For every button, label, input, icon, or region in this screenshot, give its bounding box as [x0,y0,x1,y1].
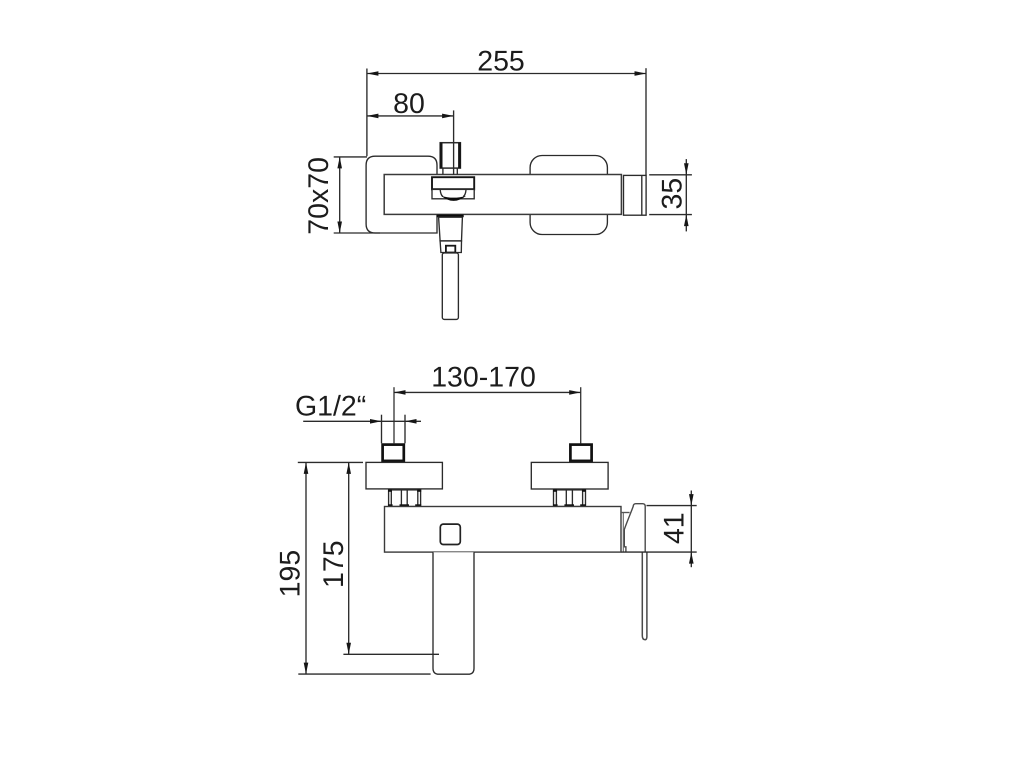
shower holder upper trapezoid (top view) [439,217,463,241]
wall plate 70x70 (top view) [366,156,437,233]
diverter button (front view) [440,524,460,544]
left union nut (front view) [383,445,404,461]
dim 70x70 line [339,157,341,233]
dim 35 extension line top [649,174,692,176]
dim 255 extension line left [366,69,368,157]
svg-text:130-170: 130-170 [431,361,536,393]
dim 195 bottom extension line [298,673,430,675]
dim G1/2 extension line left [381,415,383,444]
left hex facet lines [390,490,392,507]
aerator cup right wall [463,190,466,197]
dim 130-170 arrow right [569,390,581,395]
right rounded block (top view) [530,156,607,235]
dim 41 arrow bottom (outside) [689,552,694,564]
mixer body (front view) [385,507,622,553]
dim G1/2 arrow left (outside) [370,419,382,424]
shower holder lower section (top view) [440,241,461,253]
holder dark collar band (top view) [437,215,464,218]
dim 35 arrow top (outside) [684,163,689,175]
svg-text:41: 41 [659,512,691,544]
right union nut (front view) [570,445,591,461]
dim 255 extension line right [645,68,647,175]
diverter knob thick left edge [440,143,443,168]
right escutcheon (front view) [531,462,608,489]
dim 195 line [305,462,307,674]
dim 35 extension line bottom [649,214,692,216]
holder notch [446,246,455,253]
dim 70x70 extension line bottom [334,232,380,234]
diverter knob thick right edge [458,143,461,168]
svg-text:35: 35 [657,178,689,210]
dim 41 line [690,491,692,568]
dim 80 line [367,115,454,117]
svg-text:175: 175 [318,540,350,588]
dim 80 extension line right (through knob) [453,110,455,175]
dim 35 arrow bottom (outside) [684,215,689,227]
aerator dark mouth arc [441,196,466,201]
shower bar body (top view) [384,175,621,215]
dim 41 arrow top (outside) [689,494,694,506]
cartridge top edge [621,512,630,514]
svg-text:195: 195 [275,550,307,598]
knob neck left [442,168,444,174]
lever blade below body (front view) [642,552,647,640]
knob neck right [456,168,458,174]
aerator cup left wall [440,190,443,197]
svg-text:80: 80 [393,88,425,120]
dim 41 extension line bottom [622,551,697,553]
dim 175 arrow bottom [346,643,351,655]
lever handle (front view) [624,504,645,552]
end cap (top view) [624,175,647,215]
aerator base plate thick bottom [432,188,474,191]
dim 130-170 arrow left [394,390,406,395]
aerator tier (top view) [432,189,474,198]
left hex thick caps [388,489,392,491]
left escutcheon (front view) [366,462,442,489]
dim 255 arrow left [367,71,379,76]
right eccentric hex (front view) [554,490,586,507]
dim G1/2 arrow right (outside) [405,419,417,424]
spout / shower outlet (front view) [433,552,474,674]
dim 70x70 extension line top [334,156,367,158]
left eccentric hex (front view) [389,490,421,507]
dim 175 bottom extension line [343,653,439,655]
dim 80 arrow right [442,114,454,119]
svg-text:255: 255 [477,46,525,78]
dim 130-170 extension line right (pipe centre) [580,387,582,443]
dim 130-170 extension line left (pipe centre) [393,387,395,443]
dim 70x70 arrow top [337,157,342,169]
dim 255 arrow right [635,71,647,76]
dim 175 line [348,462,350,654]
dim 35 line [685,159,687,231]
dim 80 arrow left [367,114,379,119]
svg-text:G1/2“: G1/2“ [295,391,366,423]
dim 130-170 line [394,391,581,393]
diverter knob (top view) [440,143,460,168]
right hex facet lines [555,490,557,507]
dim 255 line [367,73,646,75]
cartridge split line (front view) [622,513,624,552]
dim 175 arrow top [346,462,351,474]
dim 41 extension line top [647,505,697,507]
dim 195 arrow top [304,462,309,474]
dim 70x70 arrow bottom [337,222,342,234]
dim 195/175 top extension line [298,461,363,463]
right hex thick caps [553,489,557,491]
dim 195 arrow bottom [304,663,309,675]
svg-text:70x70: 70x70 [303,157,335,235]
aerator base plate (top view) [432,177,474,189]
dim G1/2 extension line right [404,415,406,444]
end cap inner line [641,175,643,215]
dim G1/2 line [303,420,421,422]
hand shower wand (top view) [442,253,458,320]
